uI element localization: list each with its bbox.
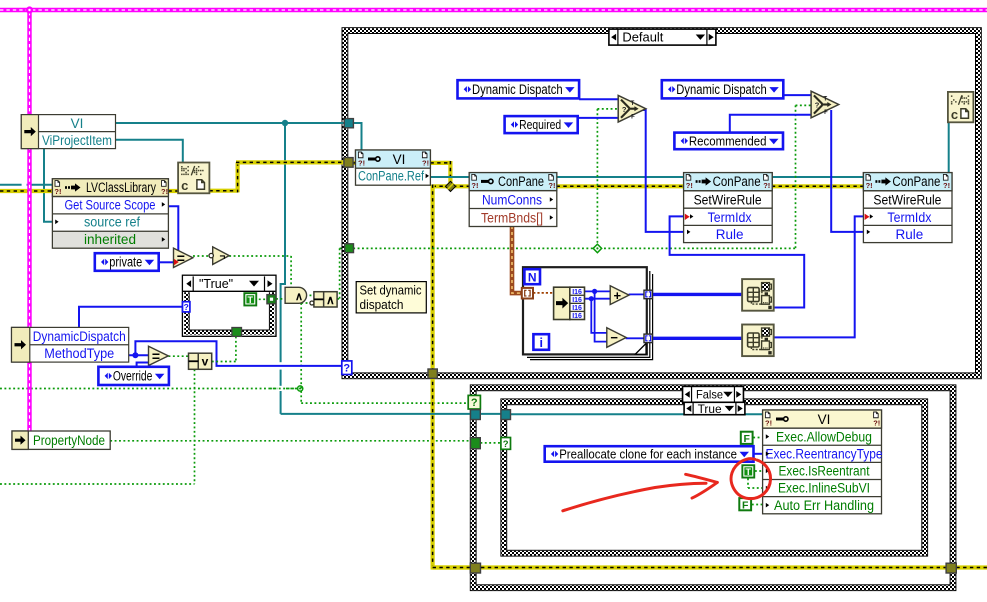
tunnel: loop output 2 <box>644 334 652 343</box>
svg-text:ConPane.Ref: ConPane.Ref <box>358 169 424 184</box>
case label False <box>683 386 744 402</box>
svg-text:=: = <box>152 348 160 364</box>
svg-text:=: = <box>177 250 185 266</box>
svg-text:?!: ?! <box>422 159 429 168</box>
svg-text:v: v <box>202 355 209 369</box>
tunnel: auto-index input [] <box>522 288 533 299</box>
add function <box>610 286 629 305</box>
svg-text:SetWireRule: SetWireRule <box>694 193 762 208</box>
svg-text:Exec.IsReentrant: Exec.IsReentrant <box>779 464 870 479</box>
svg-text:PropertyNode: PropertyNode <box>33 433 105 448</box>
wire: case selector blue into small True case <box>79 307 183 328</box>
boolean constant F (AutoErr) <box>738 497 752 511</box>
wire: ConPane.Ref teal chain <box>428 176 470 178</box>
select function 2 <box>811 91 839 118</box>
svg-text:?!: ?! <box>873 419 880 428</box>
svg-text:N: N <box>528 271 537 285</box>
wire: compound OR out to True case bottom tunnel <box>212 361 236 363</box>
wire: T const to Exec.IsReentrant <box>755 470 763 472</box>
svg-text:∧: ∧ <box>295 291 303 303</box>
svg-text:Dynamic Dispatch: Dynamic Dispatch <box>472 82 563 97</box>
subtract function <box>607 328 626 348</box>
svg-text:TermIdx: TermIdx <box>708 210 752 225</box>
svg-text:source ref: source ref <box>84 215 140 230</box>
svg-text:private: private <box>109 255 142 270</box>
property node ConPane NumConns/TermBnds <box>469 173 557 227</box>
invoke node ConPane SetWireRule 2 <box>863 173 952 243</box>
wire: array wires to conversion icons <box>652 293 742 296</box>
selector ? of inner True case <box>501 438 511 450</box>
comparison equal1 (scope) <box>174 248 193 267</box>
wire: not gate out to AND gate <box>229 255 291 257</box>
enum constant Preallocate clone for each instance <box>545 446 754 462</box>
coercion dot red (equal1) <box>174 259 179 265</box>
svg-text:DynamicDispatch: DynamicDispatch <box>33 329 126 344</box>
tunnel: error olive lower right <box>946 563 956 573</box>
wire: dotted into lower green tunnel <box>480 442 501 444</box>
svg-text:Dynamic Dispatch: Dynamic Dispatch <box>676 82 767 97</box>
wire: private enum to equals <box>158 261 174 263</box>
wire: Recommended to select2 F <box>730 115 811 133</box>
selector ? of Default case <box>342 361 352 375</box>
svg-text:ViProjectItem: ViProjectItem <box>42 133 112 148</box>
svg-text:T: T <box>248 295 254 305</box>
case label True <box>684 402 745 416</box>
svg-text:TermIdx: TermIdx <box>887 210 931 225</box>
wire: error invoke1 to invoke2 <box>772 184 864 188</box>
loop count terminal N <box>524 269 540 284</box>
svg-text:LVClassLibrary: LVClassLibrary <box>86 180 156 195</box>
wire: error ConPane to invoke1 <box>557 184 684 188</box>
svg-text:Auto Err Handling: Auto Err Handling <box>774 498 874 513</box>
svg-text:?: ? <box>503 439 509 450</box>
case structure DEFAULT (outer frame) <box>342 28 981 379</box>
svg-text:"True": "True" <box>199 277 233 291</box>
enum constant Required <box>505 116 578 133</box>
comparison equal2 (override) <box>149 346 169 365</box>
svg-text:?!: ?! <box>765 419 772 428</box>
wire: Dynamic Dispatch 1 to select1 T <box>579 98 618 100</box>
wire: boolean dotted riser to compound AND inverted input <box>300 303 302 403</box>
wire: MethodType out / junction net <box>129 354 149 356</box>
tunnel: teal on lower outer case <box>471 410 481 420</box>
tunnel: error olive on Default left border <box>344 158 353 168</box>
wire: teal vertical riser to lower case <box>281 123 285 414</box>
svg-text:?: ? <box>343 363 350 375</box>
compound arithmetic AND <box>310 292 337 307</box>
compound arithmetic OR <box>189 353 212 369</box>
wire: F const to Auto Err Handling <box>752 504 763 506</box>
tunnel: True case bottom <box>232 328 242 337</box>
svg-text:?!: ?! <box>943 181 950 190</box>
property node terminal PropertyNode <box>12 431 110 449</box>
svg-text:?!: ?! <box>358 159 365 168</box>
svg-text:?!: ?! <box>54 187 61 196</box>
wire: LV class wire vertical drop <box>27 8 31 431</box>
svg-text:Preallocate clone for each ins: Preallocate clone for each instance <box>559 447 737 462</box>
svg-text:SetWireRule: SetWireRule <box>873 193 941 208</box>
wire: LV class wire horizontal (top rail) <box>0 8 987 12</box>
svg-text:?!: ?! <box>866 181 873 190</box>
svg-text:MethodType: MethodType <box>44 346 114 361</box>
enum constant Dynamic Dispatch 2 <box>662 80 784 98</box>
svg-text:T: T <box>746 467 752 477</box>
svg-text:VI: VI <box>71 116 84 131</box>
tunnel: True case right (boolean out) <box>267 295 276 304</box>
svg-text:?!: ?! <box>763 181 770 190</box>
svg-text:True: True <box>698 404 722 416</box>
wire: boolean dotted long horizontal (selector feed) <box>0 388 300 390</box>
case structure FALSE (lower outer frame) <box>470 385 956 591</box>
wire: compound AND inverted input stub <box>301 302 310 304</box>
case structure TRUE inner (lower inner frame) <box>501 399 928 556</box>
property node VI / ViProjectItem <box>21 115 115 149</box>
wire: error VI node to junction to ConPane <box>430 161 450 165</box>
svg-text:ConPane: ConPane <box>498 174 544 189</box>
wire: add out to tunnel <box>629 293 644 295</box>
wire: LVClassLibrary refnum in (left edge) <box>0 184 52 186</box>
svg-text:NumConns: NumConns <box>482 192 542 207</box>
case label Default <box>609 29 716 45</box>
svg-text:¬: ¬ <box>220 251 226 262</box>
wire: error in (left edge) to LVClassLibrary <box>0 189 52 193</box>
svg-text:?!: ?! <box>471 181 478 190</box>
wire: boolean selector dotted inside case <box>353 247 795 249</box>
svg-text:?: ? <box>622 105 627 114</box>
svg-text:Default: Default <box>622 30 664 44</box>
wire: boolean dotted bottom horizontal <box>0 483 195 485</box>
wire: error bottom horizontal <box>433 565 471 567</box>
wire: error cast icon to Default case tunnel <box>209 189 237 193</box>
svg-text:i: i <box>539 336 542 350</box>
junction: class wire <box>26 6 33 13</box>
wire: compound AND out to case tunnel <box>337 298 339 300</box>
array-to-cluster icon 1 <box>742 279 774 311</box>
selector ? of small True case <box>183 302 190 312</box>
select function 1 <box>618 95 646 122</box>
svg-text:Exec.ReentrancyType: Exec.ReentrancyType <box>766 446 883 461</box>
svg-text:Override: Override <box>113 369 152 384</box>
svg-text:I16: I16 <box>572 313 582 320</box>
svg-text:Rule: Rule <box>896 227 924 242</box>
svg-text:Exec.AllowDebug: Exec.AllowDebug <box>776 429 872 444</box>
tunnel: error olive lower left <box>470 563 480 573</box>
junction: boolean wire node <box>298 386 303 391</box>
svg-text:?: ? <box>184 302 189 312</box>
wire: select1 out down to Rule (invoke1) <box>643 110 684 232</box>
annotation: red circle <box>731 459 770 499</box>
enum constant Override <box>98 367 168 385</box>
boolean constant T (IsReentrant) <box>741 464 755 478</box>
svg-text:?!: ?! <box>686 181 693 190</box>
tunnel: teal (VI refnum) on Default left border <box>344 119 353 128</box>
svg-text:Exec.InlineSubVI: Exec.InlineSubVI <box>778 481 870 496</box>
wire: error inside case: tunnel to VI node <box>353 161 356 165</box>
wire: PropertyNode output dotted <box>110 440 470 442</box>
case structure "True" (small) <box>182 275 276 336</box>
svg-text:c: c <box>181 178 188 193</box>
boolean constant F (AllowDebug) <box>740 431 754 445</box>
wire: F const to Exec.AllowDebug <box>753 437 762 439</box>
svg-text:+: + <box>614 288 622 303</box>
wire: AND out into compound <box>310 294 315 296</box>
wire: select2 out down to Rule (invoke2) <box>831 110 864 232</box>
and gate <box>285 287 307 303</box>
svg-text:VI: VI <box>393 152 406 167</box>
wire: tunnel out into AND gate F input <box>276 298 285 300</box>
property node DynamicDispatch / MethodType <box>12 327 129 362</box>
wire: VI refnum into lower case structures <box>281 413 471 415</box>
svg-text:F: F <box>743 433 750 445</box>
tunnel: boolean green on Default left border <box>345 244 354 253</box>
wire: ViProjectItem refnum to cast icon <box>116 140 183 164</box>
wire: VI refnum out of VI property node <box>116 122 345 124</box>
array-to-cluster icon 2 <box>742 325 774 357</box>
svg-text:?!: ?! <box>161 187 168 196</box>
wire: T const to right tunnel <box>259 298 267 300</box>
svg-text:Required: Required <box>519 117 561 132</box>
wire: Dynamic Dispatch 2 to select2 T <box>783 94 811 96</box>
invoke node LVClassLibrary <box>52 179 168 248</box>
svg-text:?: ? <box>815 101 820 110</box>
tunnel: error olive on Default bottom border <box>428 369 437 378</box>
cast to-more-specific icon A <box>178 163 209 194</box>
wire: equal1 to not gate dotted <box>193 255 210 257</box>
annotation: red arrow <box>563 483 706 511</box>
svg-text:T: T <box>631 101 635 107</box>
svg-text:?: ? <box>471 397 478 409</box>
svg-text:VI: VI <box>818 412 831 427</box>
svg-text:TermBnds[]: TermBnds[] <box>481 210 543 225</box>
property node VI (Exec properties) <box>763 410 883 514</box>
junction: selector dotted diamond <box>593 244 601 252</box>
loop iteration terminal i <box>533 334 549 350</box>
cast to-more-specific icon B <box>948 92 974 122</box>
free label "Set dynamic dispatch" <box>356 282 426 313</box>
tunnel: teal on lower inner case <box>501 410 511 420</box>
enum constant private <box>95 253 159 271</box>
for loop (stacked frame) <box>523 267 653 359</box>
wire: equal2 to compound OR dotted <box>169 355 189 357</box>
wire: loop out2 to TermIdx (invoke2) <box>774 216 864 337</box>
svg-text:T: T <box>823 97 827 103</box>
property node VI / ConPane.Ref <box>356 150 431 185</box>
wire: Get Source Scope down to equals <box>169 206 179 251</box>
invoke node ConPane SetWireRule 1 <box>684 173 773 243</box>
not gate <box>209 247 229 265</box>
wire: loop out1 to TermIdx (invoke1) <box>670 216 805 307</box>
wire: boolean dotted vertical riser x194 <box>194 369 196 484</box>
svg-text:F: F <box>824 110 828 116</box>
svg-text:Rule: Rule <box>716 227 744 242</box>
wire: TermBnds[] cluster array down to loop <box>512 226 522 293</box>
wire: Required to select1 F <box>578 117 619 119</box>
selector ? of False case <box>468 395 480 409</box>
tunnel: loop output 1 <box>644 290 652 299</box>
svg-text:False: False <box>696 388 723 402</box>
svg-text:−: − <box>610 330 618 345</box>
wire: Override enum up to equals <box>137 363 149 367</box>
wire: unbundle outs to add/subtract <box>585 290 611 292</box>
enum constant Dynamic Dispatch 1 <box>458 80 580 98</box>
boolean constant T (True case) <box>243 292 257 306</box>
wire: indexed cluster into unbundle <box>533 292 554 294</box>
tunnel: green on lower outer case <box>471 438 481 449</box>
wire: teal up to cast icon B <box>948 122 950 177</box>
enum constant Recommended <box>674 133 783 150</box>
svg-text:?!: ?! <box>548 181 555 190</box>
wire: T const to Exec.InlineSubVI <box>747 478 749 488</box>
svg-text:∧: ∧ <box>326 293 335 307</box>
svg-text:F: F <box>742 499 749 511</box>
wire: teal tunnel to VI property node top <box>353 123 362 151</box>
junction: error wire <box>445 181 455 191</box>
wire: enum to Exec.ReentrancyType <box>754 453 763 455</box>
wire: subtract out to tunnel <box>626 337 644 339</box>
svg-text:Get Source Scope: Get Source Scope <box>65 197 156 212</box>
svg-text:Set dynamic: Set dynamic <box>360 282 422 297</box>
wire: error down-leg to bottom <box>431 185 435 568</box>
unbundle node <box>554 287 585 320</box>
svg-text:dispatch: dispatch <box>360 297 404 312</box>
svg-text:c: c <box>951 107 958 122</box>
wire: error LVClassLibrary to cast icon <box>168 189 178 193</box>
wire: ViProjectItem refnum down to source ref <box>44 148 53 222</box>
svg-text:ConPane: ConPane <box>892 174 940 189</box>
svg-text:F: F <box>631 114 635 120</box>
svg-text:ConPane: ConPane <box>713 174 761 189</box>
svg-text:Recommended: Recommended <box>689 134 767 149</box>
svg-text:inherited: inherited <box>84 232 136 247</box>
